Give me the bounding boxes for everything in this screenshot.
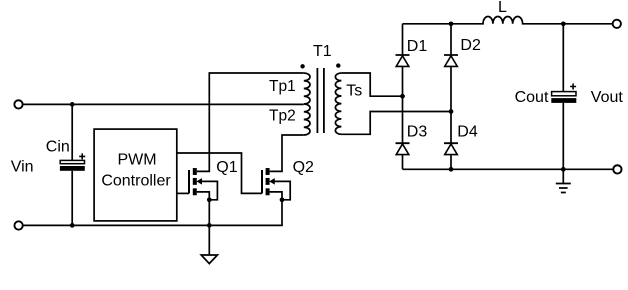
svg-text:PWM: PWM — [117, 152, 156, 169]
svg-text:Tp2: Tp2 — [269, 107, 296, 124]
svg-text:T1: T1 — [313, 43, 332, 60]
svg-text:D2: D2 — [460, 37, 481, 54]
svg-text:Tp1: Tp1 — [269, 78, 296, 95]
svg-text:Cout: Cout — [515, 89, 549, 106]
svg-text:Vin: Vin — [11, 158, 34, 175]
svg-text:L: L — [498, 0, 507, 16]
svg-text:Q2: Q2 — [293, 159, 314, 176]
svg-text:Ts: Ts — [346, 82, 362, 99]
svg-text:Cin: Cin — [46, 139, 70, 156]
svg-text:D1: D1 — [407, 38, 428, 55]
svg-text:Q1: Q1 — [216, 159, 237, 176]
svg-text:D3: D3 — [407, 123, 428, 140]
svg-text:Controller: Controller — [101, 173, 171, 190]
svg-text:Vout: Vout — [591, 89, 624, 106]
svg-text:D4: D4 — [457, 123, 478, 140]
